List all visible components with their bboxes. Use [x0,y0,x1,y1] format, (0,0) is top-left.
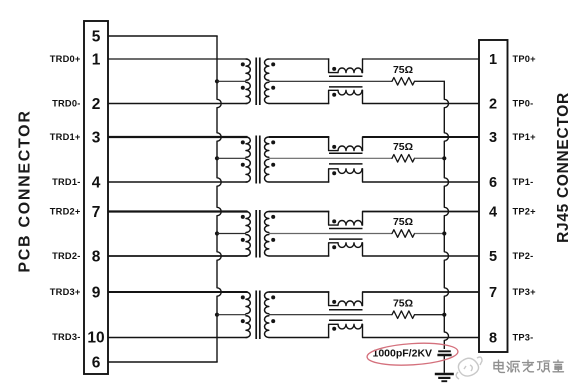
choke dot bottom [332,327,336,331]
wire TP0+ row [363,58,480,60]
polarity dot primary top [241,140,245,144]
wire center-tap stub [217,314,246,316]
node primary center tap T4 [215,313,219,317]
wire capacitor to ground [443,356,445,373]
transformer T2 secondary winding [265,137,269,157]
svg-text:1: 1 [92,51,101,68]
choke L4 core [329,309,363,311]
wire TRD3- row [108,337,248,339]
wire secondary- to choke [269,255,330,257]
choke dot bottom [332,93,336,97]
wire center-tap stub [217,233,246,235]
choke L3 core [329,228,363,230]
wire pin6 rail [108,361,218,363]
svg-text:7: 7 [489,285,497,301]
svg-text:TRD0+: TRD0+ [50,54,81,64]
svg-text:6: 6 [92,354,101,371]
svg-text:75Ω: 75Ω [393,64,413,76]
primary center-tap bus (pins 5-6) [217,36,221,362]
wire TP3+ row [363,291,480,293]
RJ45 connector J2 body [479,40,508,352]
wire center-tap stub [217,80,246,82]
svg-text:5: 5 [489,249,497,265]
ground symbol [435,373,454,376]
svg-text:5: 5 [92,28,101,45]
svg-text:8: 8 [92,248,101,265]
polarity dot secondary bottom [271,319,275,323]
svg-text:TP0-: TP0- [513,99,534,109]
choke L4 bottom winding [329,324,338,337]
choke dot bottom [332,245,336,249]
resistor R2 75ohm [392,155,415,163]
wire TRD1- row [108,181,248,183]
transformer T3 primary winding [246,212,250,233]
svg-text:TRD2+: TRD2+ [50,207,81,217]
svg-text:TP2+: TP2+ [513,207,537,217]
choke L1 top winding [329,59,338,73]
wire TRD0- row [108,103,248,105]
svg-text:4: 4 [92,174,101,191]
wire secondary+ to choke [269,291,330,293]
choke L1 bottom winding [329,90,338,103]
wire secondary+ to choke [269,211,330,213]
node primary center tap T2 [215,156,219,160]
transformer T1 secondary winding [264,59,268,80]
choke dot top [332,145,336,149]
wire TP1+ row [363,136,480,138]
svg-text:TP1+: TP1+ [513,132,537,142]
wire resistor to termination bus [415,157,446,159]
node termination bus junction ch1 [442,156,446,160]
resistor R1 75ohm [392,78,415,86]
wire secondary+ to choke [269,136,330,138]
transformer T1 primary winding [246,59,250,80]
watermark logo (grey sketch) [456,357,482,379]
wire secondary+ to choke [269,58,330,60]
svg-text:8: 8 [489,331,497,347]
svg-text:TP0+: TP0+ [513,54,537,64]
transformer T2 core [255,136,257,184]
svg-text:75Ω: 75Ω [393,297,413,309]
choke dot top [332,300,336,304]
polarity dot primary top [241,295,245,299]
wire TRD2+ row [108,210,248,212]
wire secondary- to choke [269,337,330,339]
svg-text:TRD2-: TRD2- [52,251,80,261]
svg-text:7: 7 [92,204,101,221]
svg-text:4: 4 [489,205,497,221]
polarity dot primary bottom [241,319,245,323]
wire resistor to termination bus [415,314,446,316]
svg-text:TP3-: TP3- [513,333,534,343]
wire TP2+ row [363,211,480,213]
svg-text:9: 9 [92,284,101,301]
polarity dot primary bottom [241,163,245,167]
node termination bus junction ch3 [442,313,446,317]
transformer T2 primary winding [246,137,250,157]
svg-text:TRD1-: TRD1- [52,177,80,187]
choke L4 top winding [329,292,338,306]
wire center-tap stub [217,157,246,159]
svg-text:6: 6 [489,175,497,191]
wire secondary center tap ch0 [269,80,392,82]
wire resistor to termination bus [415,80,446,82]
transformer T4 secondary winding [265,292,269,314]
polarity dot secondary bottom [271,238,275,242]
choke L3 top winding [329,212,338,226]
Bob Smith termination bus [444,81,448,349]
wire TP1- row [363,181,480,183]
svg-text:PCB CONNECTOR: PCB CONNECTOR [17,109,34,272]
svg-text:TRD3-: TRD3- [52,332,80,342]
choke dot bottom [332,171,336,175]
svg-text:2: 2 [489,97,497,113]
polarity dot secondary bottom [271,86,275,90]
polarity dot secondary top [271,295,275,299]
wire secondary- to choke [269,103,330,105]
svg-text:1: 1 [489,52,497,68]
choke L2 top winding [329,137,338,151]
polarity dot secondary top [271,215,275,219]
choke L2 bottom winding [329,169,338,182]
polarity dot secondary top [271,62,275,66]
choke dot top [332,219,336,223]
svg-text:TRD3+: TRD3+ [50,287,81,297]
resistor R3 75ohm [392,230,415,238]
polarity dot secondary bottom [271,163,275,167]
svg-text:10: 10 [87,329,104,346]
polarity dot primary bottom [241,238,245,242]
svg-text:2: 2 [92,96,101,113]
wire secondary center tap ch1 [269,157,392,159]
svg-text:TRD1+: TRD1+ [50,132,81,142]
transformer T3 core [255,210,257,258]
wire TP2- row [363,255,480,257]
svg-text:3: 3 [92,129,101,146]
svg-text:3: 3 [489,130,497,146]
watermark text (grey CJK approximation) [494,360,564,372]
wire secondary center tap ch2 [269,233,392,235]
wire TRD3+ row [108,291,248,293]
choke L3 bottom winding [329,243,338,256]
transformer T4 core [255,291,257,340]
polarity dot primary top [241,62,245,66]
svg-text:75Ω: 75Ω [393,141,413,153]
polarity dot secondary top [271,140,275,144]
wire TP0- row [363,103,480,105]
choke dot top [332,67,336,71]
wire resistor to termination bus [415,233,446,235]
polarity dot primary bottom [241,86,245,90]
highlight ellipse (red) [366,341,458,368]
wire secondary- to choke [269,181,330,183]
polarity dot primary top [241,215,245,219]
wire secondary center tap ch3 [269,314,392,316]
transformer T1 core [255,58,257,106]
capacitor C1 1000pF/2KV [438,350,451,352]
choke L1 core [329,75,363,77]
node primary center tap T1 [215,79,219,83]
svg-text:TP3+: TP3+ [513,287,537,297]
svg-text:TP1-: TP1- [513,177,534,187]
transformer T4 primary winding [246,292,250,314]
wire pin5 rail [108,35,218,37]
wire TRD2- row [108,255,248,257]
choke L2 core [329,152,363,154]
svg-text:TP2-: TP2- [513,251,534,261]
wire TRD0+ row [108,58,248,60]
svg-text:RJ45 CONNECTOR: RJ45 CONNECTOR [555,92,572,243]
svg-text:1000pF/2KV: 1000pF/2KV [373,347,433,359]
node primary center tap T3 [215,231,219,235]
transformer T3 secondary winding [265,212,269,233]
wire TP3- row [363,337,480,339]
resistor R4 75ohm [392,311,415,319]
svg-text:TRD0-: TRD0- [52,99,80,109]
wire TRD1+ row [108,136,248,138]
svg-text:75Ω: 75Ω [393,216,413,228]
node termination bus junction ch2 [442,231,446,235]
PCB connector J1 body [84,21,108,374]
